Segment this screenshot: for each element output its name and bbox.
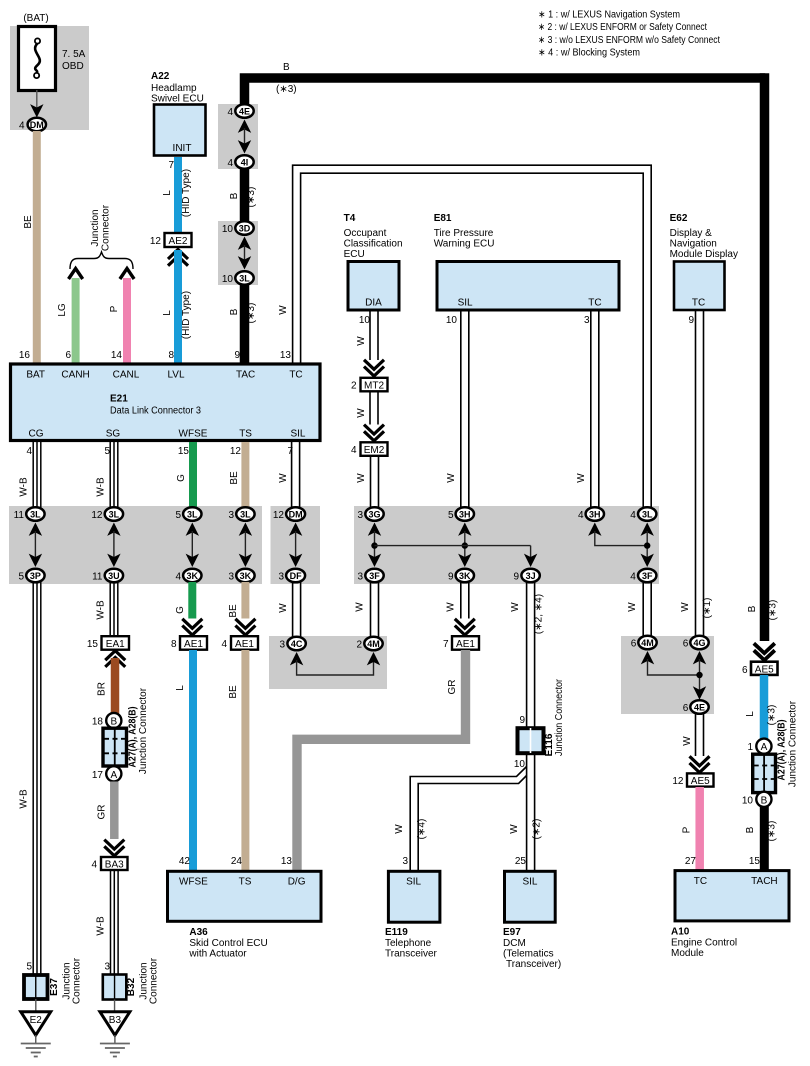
svg-text:W-B: W-B	[19, 789, 30, 809]
chevron arrows above AE5 (12)	[690, 756, 710, 772]
svg-text:A: A	[761, 742, 768, 753]
main band connector pair column 1: 3L/3P	[14, 507, 45, 582]
fuse element curve	[35, 38, 40, 43]
svg-text:B: B	[229, 308, 240, 315]
svg-text:3K: 3K	[187, 571, 199, 581]
svg-text:2: 2	[356, 640, 362, 651]
svg-text:7. 5A: 7. 5A	[62, 49, 86, 60]
svg-text:9: 9	[519, 715, 525, 726]
svg-text:14: 14	[111, 350, 123, 361]
chevron arrows above BA3	[104, 840, 124, 856]
ECU A22 Headlamp Swivel ECU box	[154, 105, 206, 156]
svg-text:W: W	[682, 736, 693, 746]
svg-text:BE: BE	[229, 471, 240, 485]
svg-text:3L: 3L	[109, 510, 120, 520]
svg-text:L: L	[162, 310, 173, 316]
wire W from EM2 to 3G	[371, 456, 379, 508]
svg-text:TC: TC	[588, 298, 601, 309]
svg-text:B: B	[745, 826, 756, 833]
ECU E119 Telephone Transceiver box	[388, 871, 440, 922]
svg-text:6: 6	[683, 703, 689, 714]
svg-text:(∗2): (∗2)	[532, 819, 543, 840]
svg-text:W: W	[446, 473, 457, 483]
svg-text:B: B	[110, 717, 117, 728]
svg-text:B32: B32	[126, 977, 137, 996]
svg-text:W-B: W-B	[96, 477, 107, 497]
grey band behind connectors 4M/4G/4E	[621, 636, 714, 714]
svg-text:E37: E37	[49, 978, 60, 996]
band connector pair 3H/3K with junction	[448, 507, 474, 582]
wire joining 4M/4G down to 4E	[641, 651, 654, 664]
svg-text:4E: 4E	[694, 703, 705, 713]
svg-text:WFSE: WFSE	[179, 429, 208, 440]
wire L from AE1 to A36 WFSE	[189, 650, 197, 871]
svg-text:LVL: LVL	[167, 370, 184, 381]
grey band behind connectors 4C/4M	[269, 636, 387, 689]
svg-text:3K: 3K	[240, 571, 252, 581]
svg-text:(∗3): (∗3)	[246, 303, 257, 324]
svg-text:ECU: ECU	[344, 249, 365, 260]
junction connector E37 box	[24, 975, 48, 999]
svg-text:Telephone: Telephone	[385, 938, 432, 949]
svg-text:(HID Type): (HID Type)	[181, 169, 192, 217]
svg-text:3: 3	[402, 856, 408, 867]
wire W from E81 TC to 3H	[591, 311, 599, 508]
wire P from AE5 to A10 TC	[695, 787, 704, 871]
svg-text:Connector: Connector	[149, 957, 160, 1004]
band connector 3H (right) with branch to 3F	[578, 507, 647, 545]
svg-text:3L: 3L	[240, 510, 251, 520]
svg-text:BE: BE	[228, 685, 239, 699]
svg-text:Junction Connector: Junction Connector	[788, 700, 799, 787]
wire B from 3L to E21 TAC	[240, 282, 250, 363]
ECU E97 DCM box	[505, 871, 556, 922]
svg-text:SIL: SIL	[458, 298, 473, 309]
svg-text:EM2: EM2	[364, 445, 385, 456]
wire BE from AE1 to A36 TS	[241, 650, 249, 871]
svg-text:TACH: TACH	[751, 876, 777, 887]
wire BR from B to EA1	[111, 658, 120, 714]
main band connector pair column 2: 3L/3U	[91, 507, 123, 582]
svg-text:7: 7	[168, 160, 174, 171]
svg-text:E21: E21	[110, 394, 128, 405]
svg-text:(HID Type): (HID Type)	[181, 291, 192, 339]
svg-text:SIL: SIL	[406, 877, 421, 888]
wire W-B from 3U to EA1	[110, 582, 118, 637]
svg-text:4M: 4M	[367, 639, 380, 649]
svg-text:3F: 3F	[369, 571, 380, 581]
wire W from 3K to AE1 (7)	[461, 582, 469, 619]
svg-text:(BAT): (BAT)	[23, 13, 48, 24]
svg-text:7: 7	[443, 639, 449, 650]
wire GR from AE1 down-left to A36 D/G	[297, 650, 466, 871]
svg-text:10: 10	[359, 315, 371, 326]
svg-text:E62: E62	[670, 213, 688, 224]
svg-text:MT2: MT2	[364, 381, 384, 392]
wire B from 4I to 3D	[240, 166, 250, 224]
svg-text:G: G	[175, 606, 186, 614]
svg-text:Engine Control: Engine Control	[671, 938, 737, 949]
svg-text:4: 4	[227, 107, 233, 118]
svg-text:13: 13	[280, 350, 292, 361]
svg-text:W: W	[510, 602, 521, 612]
wire LG (CANH)	[72, 278, 80, 363]
wire W from MT2 to EM2	[370, 392, 378, 425]
svg-text:Module: Module	[671, 948, 704, 959]
wire BE from TS to 3L	[241, 442, 249, 508]
svg-text:W: W	[355, 602, 366, 612]
svg-text:W: W	[278, 305, 289, 315]
chevron arrows above AE5 (6, black wire)	[754, 643, 775, 660]
svg-text:AE1: AE1	[235, 639, 254, 650]
svg-text:W: W	[576, 473, 587, 483]
svg-text:TS: TS	[239, 429, 252, 440]
wire W from E116 to E97 SIL	[527, 755, 535, 871]
junction connector A27(A) A28(B) box (right)	[753, 754, 776, 792]
svg-text:2: 2	[351, 381, 357, 392]
svg-text:SG: SG	[106, 429, 121, 440]
svg-text:10: 10	[742, 795, 754, 806]
svg-text:12: 12	[230, 446, 242, 457]
svg-text:CANL: CANL	[113, 370, 140, 381]
svg-text:BAT: BAT	[26, 370, 45, 381]
svg-text:4: 4	[19, 121, 25, 132]
svg-text:(Telematics: (Telematics	[503, 949, 554, 960]
chevron arrows above AE1 (8)	[182, 619, 202, 635]
svg-text:10: 10	[446, 315, 458, 326]
wire L from AE2 to E21 LVL	[174, 250, 182, 363]
svg-text:4: 4	[351, 445, 357, 456]
svg-text:4: 4	[175, 572, 181, 583]
svg-text:11: 11	[14, 510, 25, 521]
svg-text:3: 3	[584, 315, 590, 326]
svg-text:E119: E119	[385, 927, 408, 938]
wire from B32 to ground B3	[114, 1000, 116, 1013]
svg-text:4G: 4G	[693, 638, 705, 648]
svg-text:W: W	[356, 408, 367, 418]
band connector pair DM/DF	[273, 507, 305, 582]
svg-text:17: 17	[92, 770, 104, 781]
ground E2	[21, 1012, 51, 1035]
junction connector brace	[70, 252, 133, 269]
svg-text:INIT: INIT	[173, 143, 192, 154]
svg-text:3P: 3P	[30, 571, 41, 581]
svg-text:12: 12	[91, 510, 103, 521]
svg-text:L: L	[175, 685, 186, 691]
wire from fuse to DM	[36, 90, 38, 108]
svg-text:B: B	[747, 605, 758, 612]
svg-text:Tire Pressure: Tire Pressure	[434, 228, 494, 239]
svg-text:3H: 3H	[459, 510, 471, 520]
svg-text:BE: BE	[228, 604, 239, 618]
arrows between 3D and 3L	[238, 237, 251, 250]
wire B from B to A10 TACH	[760, 807, 769, 872]
svg-text:GR: GR	[97, 805, 108, 820]
svg-text:4C: 4C	[291, 639, 303, 649]
chevron arrows above AE1 (7)	[455, 619, 475, 635]
svg-text:L: L	[162, 190, 173, 196]
svg-text:Junction: Junction	[90, 209, 101, 246]
svg-text:W: W	[278, 473, 289, 483]
ECU E21 Data Link Connector 3 box	[11, 364, 321, 441]
svg-text:∗ 1 : w/ LEXUS Navigation Syst: ∗ 1 : w/ LEXUS Navigation System	[538, 10, 680, 21]
svg-text:15: 15	[749, 856, 761, 867]
wire from E37 to ground E2	[35, 999, 37, 1012]
svg-text:Headlamp: Headlamp	[151, 83, 197, 94]
svg-text:Warning ECU: Warning ECU	[434, 239, 495, 250]
arrowhead on CANH wire	[69, 269, 83, 280]
svg-text:12: 12	[150, 236, 162, 247]
svg-text:W: W	[680, 602, 691, 612]
svg-text:3: 3	[279, 640, 285, 651]
main band connector pair column 3: 3L/3K	[175, 507, 201, 582]
svg-text:25: 25	[515, 856, 527, 867]
svg-text:3D: 3D	[239, 224, 251, 234]
svg-text:11: 11	[92, 572, 103, 583]
svg-text:B: B	[283, 62, 290, 73]
svg-text:E97: E97	[503, 927, 521, 938]
svg-text:Transceiver: Transceiver	[385, 949, 438, 960]
svg-text:W-B: W-B	[96, 600, 107, 620]
svg-text:15: 15	[87, 639, 99, 650]
svg-text:T4: T4	[344, 213, 356, 224]
svg-text:AE5: AE5	[755, 664, 774, 675]
svg-text:(∗1): (∗1)	[702, 598, 713, 619]
svg-text:B: B	[761, 795, 768, 806]
svg-text:E2: E2	[30, 1015, 43, 1026]
grey band behind connectors 4E/4I	[218, 104, 258, 169]
wire G from WFSE to 3L	[189, 442, 197, 508]
ECU T4 Occupant Classification ECU box	[348, 262, 399, 311]
svg-text:4: 4	[227, 158, 233, 169]
grey band behind connectors 3G/3H/3J/3H/3L	[354, 506, 659, 584]
svg-text:D/G: D/G	[288, 877, 306, 888]
svg-text:42: 42	[179, 856, 191, 867]
wire from 4C to 4M (U shape)	[290, 652, 303, 665]
svg-text:A: A	[110, 770, 117, 781]
wire P (CANL)	[123, 278, 131, 363]
arrows between 4E and 4I	[238, 120, 251, 133]
svg-text:TAC: TAC	[236, 370, 255, 381]
svg-text:Skid Control ECU: Skid Control ECU	[189, 938, 267, 949]
svg-text:TC: TC	[289, 370, 302, 381]
svg-text:4M: 4M	[641, 638, 654, 648]
svg-text:L: L	[745, 711, 756, 717]
main band connector pair column 4: 3L/3K	[228, 507, 254, 582]
svg-text:W: W	[627, 602, 638, 612]
ECU A10 Engine Control Module box	[675, 871, 789, 921]
ground B3	[100, 1012, 130, 1035]
wire B main (top horizontal + left drop to 4E)	[245, 78, 766, 107]
svg-text:EA1: EA1	[106, 639, 125, 650]
svg-text:4E: 4E	[239, 107, 250, 117]
svg-text:3: 3	[228, 572, 234, 583]
band connector pair 3G/3F with junction	[357, 507, 383, 582]
svg-text:Swivel ECU: Swivel ECU	[151, 94, 204, 105]
grey band behind main connector row (left)	[9, 506, 262, 584]
wire W from E81 SIL to 3H	[461, 311, 469, 508]
svg-text:BE: BE	[23, 215, 34, 229]
svg-text:3L: 3L	[187, 510, 198, 520]
svg-text:1: 1	[747, 742, 753, 753]
svg-text:W: W	[509, 824, 520, 834]
svg-text:Occupant: Occupant	[344, 228, 387, 239]
svg-text:3L: 3L	[30, 510, 41, 520]
ECU E81 Tire Pressure Warning ECU box	[437, 262, 619, 311]
svg-text:W-B: W-B	[96, 916, 107, 936]
band connector pair 3L/3F (right)	[630, 507, 656, 582]
svg-text:Junction Connector: Junction Connector	[138, 687, 149, 774]
svg-text:W: W	[446, 602, 457, 612]
svg-text:3J: 3J	[526, 571, 536, 581]
svg-text:∗ 3 : w/o LEXUS ENFORM w/o Saf: ∗ 3 : w/o LEXUS ENFORM w/o Safety Connec…	[538, 35, 720, 46]
band connector 3J	[513, 569, 539, 583]
svg-text:Connector: Connector	[101, 204, 112, 251]
svg-text:CG: CG	[29, 429, 44, 440]
svg-text:3L: 3L	[239, 274, 250, 284]
svg-text:13: 13	[281, 856, 293, 867]
fuse F1 7.5A OBD box	[19, 27, 56, 91]
grey band behind connectors 3D/3L	[218, 221, 258, 285]
chevron arrows below EA1	[105, 651, 125, 667]
svg-text:Display &: Display &	[670, 228, 713, 239]
wire W from DIA to MT2	[370, 311, 378, 360]
wire W-B from BA3 to B32	[111, 870, 119, 974]
grey band behind connectors DM/DF	[271, 506, 321, 584]
wire W-B from CG to 3L	[33, 442, 41, 508]
wire W from E62 TC to 4G	[696, 311, 704, 637]
wire W from 3F to 4M	[371, 582, 379, 637]
svg-text:9: 9	[448, 572, 454, 583]
svg-text:W: W	[356, 336, 367, 346]
branch wire W from E116 to E119 SIL	[410, 767, 526, 872]
svg-text:16: 16	[19, 350, 31, 361]
svg-text:W: W	[356, 473, 367, 483]
svg-text:A27(A), A28(B): A27(A), A28(B)	[128, 707, 139, 768]
svg-text:12: 12	[273, 510, 285, 521]
svg-text:AE5: AE5	[691, 776, 710, 787]
grey highlight band behind fuse	[10, 26, 89, 130]
svg-text:9: 9	[234, 350, 240, 361]
svg-text:9: 9	[513, 572, 519, 583]
svg-text:18: 18	[92, 717, 104, 728]
svg-text:BR: BR	[97, 682, 108, 696]
svg-text:6: 6	[683, 639, 689, 650]
wire W from 4E to AE5	[696, 714, 704, 756]
wire BE from DM to E21 BAT	[33, 131, 41, 363]
svg-text:10: 10	[222, 274, 234, 285]
chevron arrows below AE2	[168, 250, 188, 266]
wire W-B from SG to 3L	[110, 442, 118, 508]
svg-text:DCM: DCM	[503, 938, 526, 949]
svg-text:(∗3): (∗3)	[246, 187, 257, 208]
svg-text:3L: 3L	[642, 510, 653, 520]
svg-text:AE2: AE2	[169, 236, 188, 247]
wire W from E21 TC up and across to 3L (double line)	[293, 165, 652, 508]
svg-text:5: 5	[18, 572, 24, 583]
wire W from 3F to 4M (right)	[643, 582, 651, 637]
svg-text:9: 9	[688, 315, 694, 326]
svg-text:4: 4	[630, 572, 636, 583]
svg-text:AE1: AE1	[184, 639, 203, 650]
svg-text:3: 3	[357, 510, 363, 521]
svg-text:4: 4	[91, 860, 97, 871]
wire W from 3J to E116	[527, 582, 535, 727]
chevron arrows above AE1 (4)	[235, 619, 255, 635]
svg-text:DF: DF	[290, 571, 302, 581]
svg-text:AE1: AE1	[456, 639, 475, 650]
wire W from SIL to DM	[292, 442, 300, 508]
svg-text:TC: TC	[694, 876, 707, 887]
wire BE from 3K to AE1	[241, 582, 249, 619]
svg-text:3K: 3K	[459, 571, 471, 581]
junction connector A27(A) A28(B) box (left)	[103, 728, 127, 766]
svg-text:B3: B3	[109, 1015, 122, 1026]
svg-text:15: 15	[178, 446, 190, 457]
svg-text:5: 5	[448, 510, 454, 521]
svg-text:4: 4	[221, 639, 227, 650]
junction connector E116 box	[518, 728, 544, 753]
svg-text:W: W	[278, 603, 289, 613]
svg-text:A27(A), A28(B): A27(A), A28(B)	[777, 720, 788, 781]
svg-text:3H: 3H	[589, 510, 601, 520]
arrowhead on CANL wire	[120, 269, 134, 280]
ECU A36 Skid Control ECU box	[168, 871, 322, 921]
svg-text:TC: TC	[692, 298, 705, 309]
svg-text:5: 5	[175, 510, 181, 521]
svg-text:BA3: BA3	[105, 860, 124, 871]
svg-text:27: 27	[685, 856, 697, 867]
svg-text:6: 6	[65, 350, 71, 361]
svg-text:LG: LG	[57, 303, 68, 317]
wire W from DF to 4C	[293, 582, 301, 637]
svg-text:24: 24	[231, 856, 243, 867]
svg-text:TS: TS	[239, 877, 252, 888]
svg-text:5: 5	[26, 962, 32, 973]
svg-text:8: 8	[171, 639, 177, 650]
svg-text:3U: 3U	[108, 571, 120, 581]
svg-text:A22: A22	[151, 71, 170, 82]
junction wire from 3G/3H to 3J	[375, 545, 531, 547]
svg-text:SIL: SIL	[290, 429, 305, 440]
svg-text:Transceiver): Transceiver)	[506, 959, 561, 970]
svg-text:B: B	[229, 192, 240, 199]
svg-text:P: P	[682, 826, 693, 833]
svg-text:3: 3	[104, 962, 110, 973]
svg-text:Connector: Connector	[72, 957, 83, 1004]
svg-text:3: 3	[278, 572, 284, 583]
svg-text:WFSE: WFSE	[179, 877, 208, 888]
svg-text:3: 3	[357, 572, 363, 583]
wire W-B from 3P to E37	[33, 582, 41, 974]
svg-text:A36: A36	[189, 927, 208, 938]
svg-text:W-B: W-B	[19, 477, 30, 497]
chevron arrows above EM2	[364, 425, 384, 441]
svg-text:(∗4): (∗4)	[417, 819, 428, 840]
wire GR from A to BA3	[110, 782, 119, 840]
svg-text:A10: A10	[671, 927, 690, 938]
svg-text:(∗3): (∗3)	[767, 821, 778, 842]
svg-text:4: 4	[630, 510, 636, 521]
svg-text:OBD: OBD	[62, 61, 84, 72]
wire G from 3K to AE1	[188, 582, 196, 619]
svg-text:3: 3	[228, 510, 234, 521]
svg-text:Module Display: Module Display	[670, 249, 738, 260]
svg-text:4: 4	[578, 510, 584, 521]
svg-text:P: P	[109, 305, 120, 312]
svg-text:W: W	[394, 824, 405, 834]
svg-text:4: 4	[26, 446, 32, 457]
